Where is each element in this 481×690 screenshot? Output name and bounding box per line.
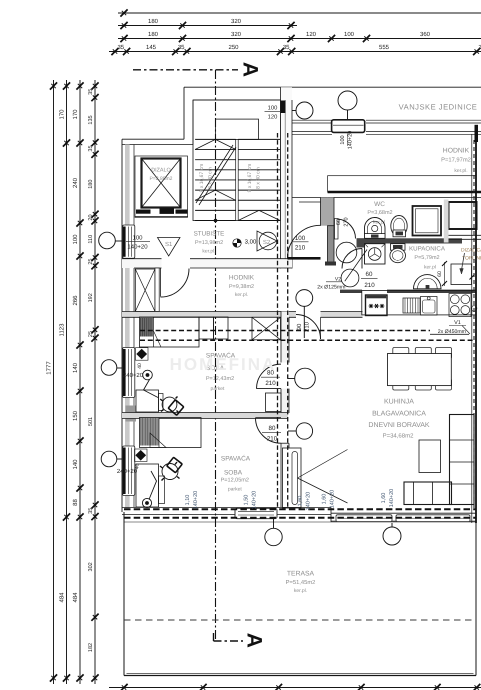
svg-text:60: 60 [336, 219, 342, 225]
svg-text:A: A [242, 633, 265, 648]
svg-text:266: 266 [72, 295, 79, 306]
svg-text:P=13,98m2: P=13,98m2 [195, 240, 223, 246]
bedroom1 east wall upper [281, 312, 289, 363]
stair landing box [215, 119, 258, 139]
svg-text:25: 25 [88, 331, 94, 337]
svg-text:A: A [238, 62, 261, 77]
south wall living section [331, 512, 476, 514]
window W2 bedroom1 [123, 348, 135, 398]
svg-text:140+20: 140+20 [348, 131, 354, 150]
svg-text:140+20: 140+20 [193, 491, 199, 510]
svg-text:100: 100 [344, 31, 355, 38]
svg-text:1777: 1777 [46, 361, 53, 375]
benchmark +3,00 [233, 239, 241, 247]
svg-text:25: 25 [88, 259, 94, 265]
top facade line [184, 86, 481, 88]
svg-text:SPAVAĆA: SPAVAĆA [221, 455, 251, 463]
sofa bottom row [404, 482, 452, 505]
svg-text:2x Ø125mm: 2x Ø125mm [317, 284, 345, 290]
hidden line vertical pair [277, 133, 279, 508]
west wall inner face [133, 145, 135, 226]
svg-text:P=2,88m2: P=2,88m2 [150, 176, 173, 182]
svg-text:parket: parket [228, 487, 243, 493]
bottom dimension row (cut off at page edge) [109, 687, 481, 689]
svg-text:210: 210 [265, 380, 276, 387]
sink [421, 297, 438, 316]
svg-text:270: 270 [344, 217, 350, 226]
svg-text:100: 100 [340, 135, 346, 144]
left dimension column 3: 170,240,100,266,140,150,140,88,484 [79, 80, 81, 684]
svg-text:P=34,68m2: P=34,68m2 [383, 433, 415, 440]
WC west wall [328, 226, 335, 264]
desk bedroom2 [136, 464, 159, 507]
svg-text:STUBIŠTE: STUBIŠTE [194, 230, 225, 238]
svg-text:35: 35 [88, 89, 94, 95]
bath door 60/210 [361, 249, 363, 269]
svg-text:302: 302 [88, 562, 94, 571]
svg-text:80: 80 [269, 425, 276, 432]
svg-text:S2: S2 [263, 239, 271, 246]
svg-text:P=12,43m2: P=12,43m2 [206, 376, 234, 382]
south wall overhang dashed pair [124, 508, 476, 510]
toilet B2 bath [391, 244, 406, 251]
kitchen counter [362, 291, 476, 315]
svg-text:8 x 30 cm: 8 x 30 cm [256, 167, 262, 189]
svg-text:180: 180 [88, 180, 94, 189]
kitchen/bath wall dark [340, 290, 362, 293]
shaft with X corridor corner [252, 317, 281, 340]
washbasin [414, 275, 442, 289]
svg-text:240+20: 240+20 [117, 468, 138, 475]
section line A-A vertical [215, 70, 217, 641]
desk lamp bedroom1 [143, 370, 153, 380]
svg-text:120: 120 [306, 31, 317, 38]
svg-text:145: 145 [146, 44, 157, 51]
stair treads [195, 138, 236, 140]
stairwell inner outline [193, 100, 281, 221]
svg-text:HODNIK: HODNIK [443, 148, 470, 155]
wardrobe right of bed 1 [199, 317, 214, 339]
svg-text:170: 170 [72, 109, 79, 120]
bedroom1 east wall lower [281, 389, 289, 413]
dining chairs top row [393, 348, 409, 359]
svg-text:180: 180 [148, 18, 159, 25]
left dimension column 2: 170,1123,484 [66, 80, 68, 684]
dining table [388, 354, 452, 386]
TV bench [283, 448, 302, 508]
top dimension row 3: 35,145,35,250,35,555 [109, 51, 481, 53]
svg-text:484: 484 [72, 592, 79, 603]
marker S2 triangle+circle [257, 231, 277, 251]
svg-text:135: 135 [88, 115, 94, 124]
toilet A [365, 218, 386, 238]
svg-text:3,00: 3,00 [245, 238, 257, 245]
top dimension row 1: 180, 320 [118, 25, 297, 27]
svg-text:P=17,97m2: P=17,97m2 [441, 157, 471, 164]
pier hatch between windows [126, 406, 137, 422]
grid bubble left 1 [99, 232, 116, 249]
wall lip left of WC stub [292, 197, 328, 199]
stair central divider [235, 139, 237, 220]
vestibule door to hodnik [160, 268, 162, 297]
left dimension column 4: 35,135,35,180,20,110,25,192,25,501,35,302,182 [94, 80, 96, 684]
window W1 stair vestibule (100/140+20) [123, 225, 135, 258]
svg-text:1,60: 1,60 [381, 493, 387, 504]
grid bubble top 2 [338, 91, 357, 110]
stair block north wall inner face [193, 99, 292, 101]
window marker diamond bedroom2 [135, 449, 148, 462]
svg-text:140: 140 [72, 459, 79, 470]
bed 1 [140, 317, 200, 347]
terrace inner dashed line [124, 619, 476, 621]
chair bedroom1 [168, 400, 183, 415]
stair east wall [281, 87, 293, 268]
grid bubble interior 2 [295, 368, 316, 389]
svg-text:210: 210 [364, 282, 375, 289]
svg-text:9 x 16,67 cm: 9 x 16,67 cm [199, 164, 205, 193]
svg-text:90: 90 [296, 323, 303, 330]
svg-text:P=3,68m2: P=3,68m2 [367, 210, 392, 216]
svg-text:ker.pl.: ker.pl. [202, 249, 215, 255]
chair bedroom2 [167, 457, 182, 472]
svg-text:501: 501 [88, 417, 94, 426]
svg-text:parket: parket [211, 386, 226, 392]
svg-text:60: 60 [366, 271, 373, 278]
top dimension row 0 (overall) [118, 12, 481, 14]
svg-text:1,10: 1,10 [185, 495, 191, 506]
window marker diamond bedroom1 [136, 348, 149, 361]
svg-text:140: 140 [72, 362, 79, 373]
left dimension column 1: 1777 [53, 80, 55, 684]
svg-text:1,50: 1,50 [244, 495, 250, 506]
svg-text:100: 100 [72, 234, 79, 245]
hidden line east wall [473, 140, 475, 508]
svg-text:SOBA: SOBA [224, 470, 243, 477]
grid bubble left 3 [101, 451, 117, 467]
svg-text:35: 35 [178, 44, 185, 51]
svg-text:140+20: 140+20 [127, 244, 148, 251]
heat pump box with arrow [451, 264, 472, 285]
grid bubble interior 1 [296, 290, 313, 307]
svg-text:8 x 30 cm: 8 x 30 cm [208, 167, 214, 189]
east wall pier dark [475, 125, 479, 142]
svg-text:100: 100 [295, 235, 306, 242]
apartment west outer wall [121, 139, 123, 512]
svg-text:HOMEFINA: HOMEFINA [170, 355, 277, 374]
svg-text:150: 150 [72, 410, 79, 421]
drainer hatch [403, 298, 420, 313]
svg-text:320: 320 [231, 18, 242, 25]
heat pump dim 60 [444, 262, 446, 286]
svg-text:60: 60 [437, 271, 443, 277]
svg-text:555: 555 [379, 44, 390, 51]
svg-text:240+20: 240+20 [123, 372, 144, 379]
svg-text:35: 35 [283, 44, 290, 51]
WC/bath divider wall dark [357, 238, 463, 243]
svg-text:DIZALICA: DIZALICA [461, 248, 481, 254]
svg-text:1,60: 1,60 [298, 496, 304, 507]
svg-text:P=51,45m2: P=51,45m2 [286, 579, 316, 586]
dishwasher with asterisks [366, 295, 388, 316]
window W3 bedroom2 [123, 446, 135, 496]
cooktop 4 burners [449, 294, 471, 317]
grid bubble interior 3 [296, 423, 312, 439]
stair tent mark right flight bottom [238, 210, 259, 220]
south wall bedroom2 section [122, 506, 331, 508]
desk lamp bedroom2 [142, 498, 151, 507]
svg-text:KUHINJA: KUHINJA [384, 399, 414, 406]
svg-text:P=9,38m2: P=9,38m2 [229, 284, 254, 290]
grid bubble top 1 [296, 102, 313, 119]
TV viewing lines [298, 450, 348, 479]
grid bubble bottom 2 [383, 527, 401, 545]
stair block west outer wall [183, 87, 185, 139]
svg-text:40: 40 [137, 363, 143, 369]
svg-text:1,60: 1,60 [322, 494, 328, 505]
svg-text:WC: WC [374, 201, 385, 208]
svg-text:100: 100 [268, 105, 278, 112]
svg-text:140+20: 140+20 [389, 489, 395, 508]
stair tent mark left flight top [195, 139, 215, 149]
svg-text:KUPAONICA: KUPAONICA [409, 246, 446, 253]
svg-text:9 x 16,67 cm: 9 x 16,67 cm [247, 164, 253, 193]
grid bubble bottom 1 [265, 528, 282, 545]
svg-text:110: 110 [88, 235, 94, 244]
svg-text:250: 250 [228, 44, 239, 51]
vent line lower [140, 339, 476, 341]
bedroom2 east wall [281, 443, 289, 507]
svg-text:DNEVNI BORAVAK: DNEVNI BORAVAK [368, 422, 430, 429]
WC door 60 [335, 219, 339, 240]
svg-text:88: 88 [72, 499, 79, 506]
corridor south wall [122, 312, 296, 318]
elevator door black bars [136, 210, 151, 214]
svg-text:320: 320 [231, 31, 242, 38]
svg-text:140+20: 140+20 [306, 492, 312, 511]
bed 2 [140, 418, 202, 448]
living room door 90/210 [296, 315, 321, 340]
svg-text:140+20: 140+20 [330, 490, 336, 509]
vent line upper 2x450 [140, 330, 430, 332]
svg-text:120: 120 [268, 113, 278, 120]
section node dot [214, 219, 218, 223]
section marker A bottom [214, 640, 244, 642]
svg-text:35: 35 [88, 508, 94, 514]
section marker A top [133, 69, 238, 71]
svg-text:35: 35 [88, 145, 94, 151]
svg-text:100: 100 [132, 235, 143, 242]
marker S1 triangle [158, 238, 181, 257]
west wall step band [122, 144, 193, 146]
stair walking break line [196, 145, 233, 203]
east wall lines [471, 134, 473, 523]
column black at strip joint [281, 101, 286, 114]
svg-text:TERASA: TERASA [287, 571, 315, 578]
elevator niche outline [135, 156, 188, 217]
svg-text:ker.pl: ker.pl [424, 265, 436, 271]
svg-text:BLAGAVAONICA: BLAGAVAONICA [372, 411, 426, 418]
bedroom divider wall [122, 413, 288, 419]
svg-text:182: 182 [88, 643, 94, 652]
svg-text:1123: 1123 [59, 323, 66, 337]
svg-text:20: 20 [88, 214, 94, 220]
coffee table [419, 440, 441, 473]
svg-text:140+20: 140+20 [252, 491, 258, 510]
svg-text:P=12,05m2: P=12,05m2 [221, 478, 249, 484]
svg-text:V1: V1 [454, 320, 461, 326]
terrace outline [123, 512, 125, 676]
window W5 in north wall (100/140+20) [332, 120, 365, 133]
window W4 south bedroom2 [235, 508, 277, 518]
desk bedroom1 [136, 390, 159, 412]
bidet B1 [391, 216, 407, 237]
svg-text:ker.pl.: ker.pl. [235, 292, 248, 298]
washing machine [365, 244, 386, 264]
svg-text:P=5,79m2: P=5,79m2 [414, 255, 439, 261]
svg-text:35: 35 [117, 44, 124, 51]
dining chairs bottom row [393, 379, 409, 390]
bedroom2 door 80/210 [256, 418, 282, 444]
svg-text:170: 170 [59, 109, 66, 120]
grid bubble left 2 [101, 360, 117, 376]
wall stub hodnik/WC [321, 198, 335, 226]
shaft with X left [135, 269, 155, 312]
vent circles V2 [336, 242, 357, 263]
door 100/210 to WC lobby [288, 257, 321, 260]
west wall grey core [125, 145, 130, 226]
north wall band right section [292, 119, 332, 121]
stair tent mark left flight lower [195, 190, 215, 200]
svg-text:192: 192 [88, 293, 94, 302]
nightstand bedroom1 [266, 393, 282, 412]
DIZALICA TOPLINE niche [449, 202, 477, 229]
beam band above WC [328, 176, 476, 192]
bedroom1 door 80/210 [257, 364, 282, 389]
svg-text:484: 484 [59, 592, 66, 603]
svg-text:180: 180 [148, 31, 159, 38]
vestibule south wall [122, 259, 162, 268]
svg-text:DIZALO: DIZALO [151, 168, 170, 174]
sofa L right column [450, 415, 475, 505]
svg-text:210: 210 [267, 436, 278, 443]
svg-text:210: 210 [295, 244, 306, 251]
svg-text:HODNIK: HODNIK [229, 275, 255, 282]
svg-text:ker.pl.: ker.pl. [454, 168, 467, 174]
svg-text:240: 240 [72, 177, 79, 188]
svg-text:ker.pl.: ker.pl. [294, 588, 307, 594]
svg-text:VANJSKE JEDINICE: VANJSKE JEDINICE [399, 103, 478, 112]
svg-text:S1: S1 [165, 241, 173, 248]
svg-text:360: 360 [420, 31, 431, 38]
shower tray [413, 206, 442, 236]
elevator shaft DIZALO [142, 159, 181, 208]
big south window band [336, 515, 392, 522]
top dimension row 2: 180, 320, 120, 100, 360 [118, 38, 481, 40]
